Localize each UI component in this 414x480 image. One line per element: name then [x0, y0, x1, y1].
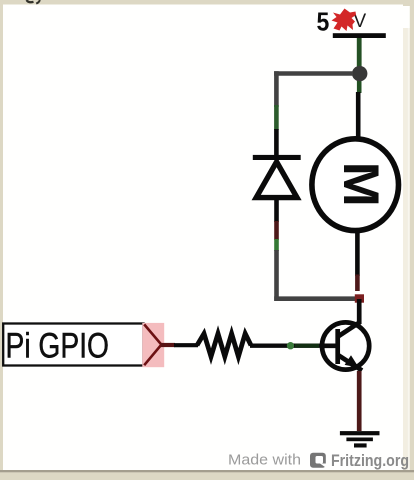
- transistor base bar: [335, 329, 340, 364]
- transistor emitter diagonal: [338, 355, 362, 371]
- Pi GPIO chevron: [144, 324, 161, 365]
- junction node dot: [352, 66, 367, 82]
- power rail bar (5V symbol): [333, 33, 386, 38]
- svg-text:Made with: Made with: [228, 452, 301, 469]
- ground symbol bar 1: [340, 431, 380, 435]
- transistor Q1 circle: [322, 322, 369, 369]
- motor M1 circle: [312, 139, 399, 231]
- diode bottom wire dark red tip: [274, 221, 279, 240]
- motor bottom wire dark red: [355, 275, 360, 292]
- watermark: Fritzing logo: [310, 453, 326, 468]
- wire junction to motor: green tip: [357, 78, 362, 93]
- wire label to resistor: black: [174, 343, 198, 347]
- svg-text:Pi GPIO: Pi GPIO: [6, 327, 110, 366]
- Pi GPIO pink connector area: [142, 323, 164, 367]
- wire green dark segment near base: [295, 344, 319, 348]
- top-right white notch: [401, 6, 410, 28]
- Pi GPIO label box: [3, 324, 143, 366]
- junction red marker: [355, 294, 364, 302]
- diode bottom wire green bead: [274, 239, 279, 251]
- ground symbol bar 2: [346, 438, 373, 442]
- bottom gray rule line: [0, 470, 414, 472]
- diode bottom lead black: [274, 199, 279, 222]
- wire down to diode: green segment: [274, 105, 279, 130]
- svg-text:M: M: [333, 162, 390, 207]
- emitter wire dark red to ground: [357, 371, 362, 431]
- wire junction to motor: black segment: [356, 92, 361, 141]
- wire bottom horizontal gray: [274, 296, 356, 301]
- diode D1 triangle: [256, 162, 297, 198]
- svg-text:Fritzing.org: Fritzing.org: [331, 452, 409, 470]
- wire label to resistor: dark red tip: [161, 343, 176, 347]
- diode top lead black: [274, 129, 279, 156]
- wire diode to bottom corner gray: [274, 250, 279, 301]
- cropped text fragment top-left: [27, 0, 40, 4]
- wire down to diode: gray segment: [274, 71, 279, 107]
- transistor base lead inside: [320, 343, 338, 348]
- svg-text:5: 5: [317, 7, 330, 37]
- ground symbol bar 3: [354, 443, 367, 447]
- red scribble annotation over 5V: [332, 9, 357, 32]
- wire resistor to transistor black: [250, 344, 322, 348]
- motor bottom lead: [355, 228, 360, 276]
- wire power bar to junction (green): [357, 38, 362, 70]
- resistor R1 zigzag: [197, 334, 251, 357]
- transistor collector diagonal: [338, 322, 360, 337]
- right page edge white line: [403, 28, 408, 470]
- transistor emitter arrowhead: [345, 355, 359, 367]
- wire junction to diode: horizontal gray: [274, 71, 353, 76]
- collector wire black: [357, 299, 362, 324]
- wire green bead connection: [287, 342, 294, 349]
- diode D1 cathode bar: [253, 155, 301, 160]
